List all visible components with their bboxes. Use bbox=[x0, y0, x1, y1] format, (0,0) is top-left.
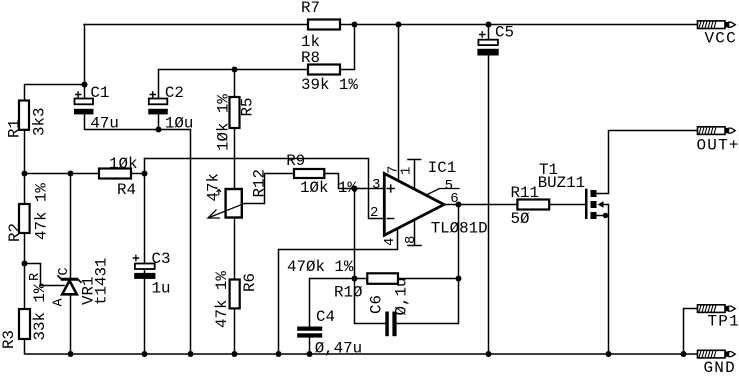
svg-text:R7: R7 bbox=[301, 0, 320, 17]
svg-text:C: C bbox=[57, 267, 72, 275]
svg-text:R4: R4 bbox=[117, 181, 136, 199]
svg-text:VCC: VCC bbox=[705, 30, 737, 48]
svg-text:R6: R6 bbox=[241, 273, 259, 292]
svg-text:1Øk 1%: 1Øk 1% bbox=[300, 179, 357, 197]
svg-text:47Øk 1%: 47Øk 1% bbox=[287, 258, 354, 276]
svg-text:R: R bbox=[28, 273, 43, 281]
svg-text:GND: GND bbox=[704, 359, 736, 377]
svg-text:OUT+: OUT+ bbox=[697, 137, 739, 155]
svg-text:1Øu: 1Øu bbox=[165, 115, 193, 133]
svg-text:TP1: TP1 bbox=[708, 313, 739, 331]
svg-text:47k 1%: 47k 1% bbox=[213, 271, 231, 328]
svg-text:8: 8 bbox=[403, 236, 419, 244]
svg-text:5Ø: 5Ø bbox=[511, 210, 530, 228]
svg-text:3: 3 bbox=[372, 177, 380, 193]
svg-text:Ø,1u: Ø,1u bbox=[393, 278, 411, 316]
svg-text:BUZ11: BUZ11 bbox=[538, 174, 585, 192]
svg-text:TLØ81D: TLØ81D bbox=[431, 220, 488, 238]
svg-text:1Øk 1%: 1Øk 1% bbox=[215, 94, 233, 151]
svg-text:C1: C1 bbox=[90, 84, 109, 102]
svg-text:IC1: IC1 bbox=[428, 159, 456, 177]
svg-text:47k: 47k bbox=[205, 173, 223, 201]
svg-text:R9: R9 bbox=[286, 152, 305, 170]
svg-text:C4: C4 bbox=[316, 308, 335, 326]
svg-text:39k 1%: 39k 1% bbox=[301, 76, 358, 94]
svg-text:33k 1%: 33k 1% bbox=[31, 283, 49, 340]
svg-text:R1Ø: R1Ø bbox=[334, 284, 363, 302]
svg-text:Ø,47u: Ø,47u bbox=[315, 340, 362, 358]
svg-text:A: A bbox=[52, 298, 67, 307]
svg-text:3k3: 3k3 bbox=[31, 108, 49, 136]
svg-text:t1431: t1431 bbox=[93, 258, 111, 305]
svg-text:2: 2 bbox=[370, 205, 378, 221]
svg-text:6: 6 bbox=[450, 191, 458, 207]
svg-text:R5: R5 bbox=[239, 98, 257, 117]
svg-text:R2: R2 bbox=[6, 223, 24, 242]
svg-text:4: 4 bbox=[382, 238, 398, 246]
svg-text:R1: R1 bbox=[6, 119, 24, 138]
svg-text:R3: R3 bbox=[0, 330, 18, 349]
svg-text:R11: R11 bbox=[511, 184, 539, 202]
svg-text:1Øk: 1Øk bbox=[109, 155, 137, 173]
svg-text:R8: R8 bbox=[301, 49, 320, 67]
svg-text:47u: 47u bbox=[90, 115, 118, 133]
svg-text:C6: C6 bbox=[368, 295, 386, 314]
svg-text:1: 1 bbox=[399, 167, 415, 175]
svg-text:1u: 1u bbox=[152, 280, 171, 298]
svg-text:C5: C5 bbox=[495, 24, 514, 42]
svg-text:R12: R12 bbox=[251, 169, 269, 197]
svg-text:C2: C2 bbox=[165, 84, 184, 102]
svg-text:C3: C3 bbox=[152, 250, 171, 268]
svg-text:47k 1%: 47k 1% bbox=[33, 183, 51, 240]
